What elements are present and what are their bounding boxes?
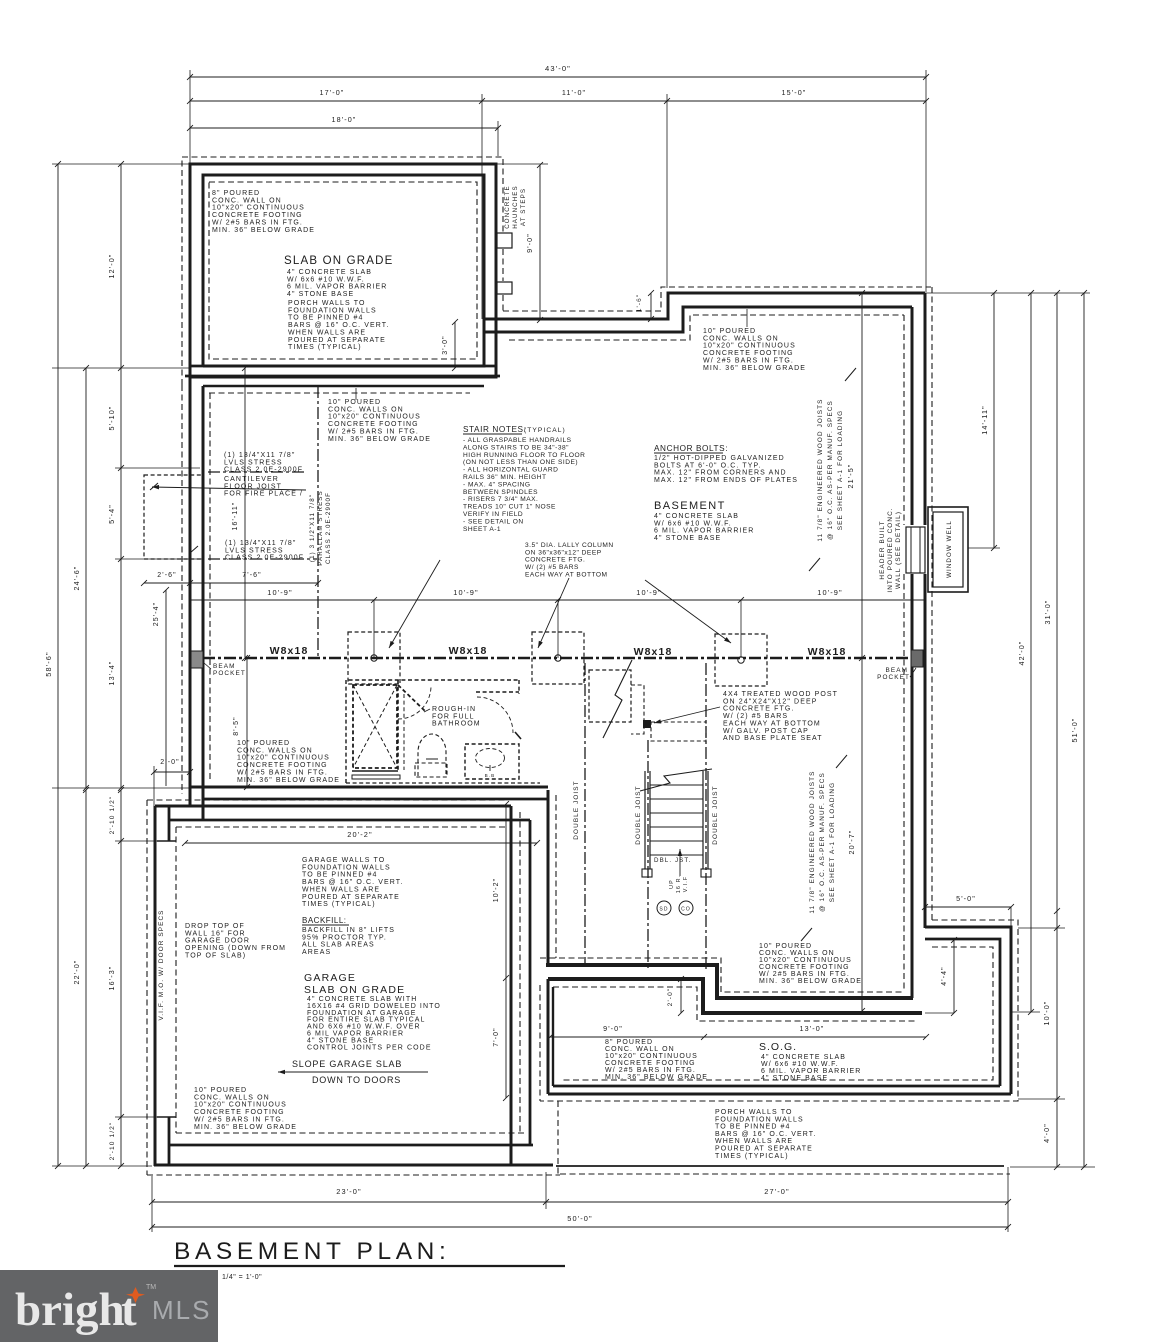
svg-text:(1) 13/4"X11 7/8": (1) 13/4"X11 7/8" xyxy=(224,452,295,459)
engineered joists note A xyxy=(809,368,856,571)
svg-text:W/ (2) #5 BARS: W/ (2) #5 BARS xyxy=(525,564,579,571)
svg-text:INTO POURED CONC.: INTO POURED CONC. xyxy=(887,507,894,592)
svg-text:BARS @ 16" O.C. VERT.: BARS @ 16" O.C. VERT. xyxy=(302,879,403,886)
svg-text:WALL (SEE DETAIL): WALL (SEE DETAIL) xyxy=(895,511,902,589)
svg-text:10'-9": 10'-9" xyxy=(636,588,661,597)
svg-text:6 MIL. VAPOR BARRIER: 6 MIL. VAPOR BARRIER xyxy=(287,284,387,291)
stair labels xyxy=(654,849,691,893)
svg-text:4" CONCRETE SLAB: 4" CONCRETE SLAB xyxy=(761,1054,846,1061)
svg-text:6 MIL. VAPOR BARRIER: 6 MIL. VAPOR BARRIER xyxy=(654,528,754,535)
svg-text:8" POURED: 8" POURED xyxy=(605,1039,653,1046)
svg-text:10" POURED: 10" POURED xyxy=(194,1087,247,1094)
svg-text:SLAB ON GRADE: SLAB ON GRADE xyxy=(304,984,405,996)
svg-text:ANCHOR BOLTS:: ANCHOR BOLTS: xyxy=(654,444,728,453)
backfill note xyxy=(302,916,395,956)
svg-text:BACKFILL IN 8" LIFTS: BACKFILL IN 8" LIFTS xyxy=(302,927,395,934)
svg-text:CONCRETE FOOTING: CONCRETE FOOTING xyxy=(759,964,850,971)
lally leader arrows xyxy=(389,560,731,648)
svg-text:BACKFILL:: BACKFILL: xyxy=(302,916,347,925)
svg-text:TO BE PINNED #4: TO BE PINNED #4 xyxy=(302,872,378,879)
parallam psl line and note xyxy=(309,386,332,658)
garage door VIF note xyxy=(158,909,165,1020)
svg-text:W/ GALV. POST CAP: W/ GALV. POST CAP xyxy=(723,728,809,735)
svg-text:BASEMENT PLAN:: BASEMENT PLAN: xyxy=(174,1238,450,1265)
garage 10in poured note xyxy=(194,1087,297,1131)
dimension 2'-0" garage offset xyxy=(151,759,193,806)
basement bottom wall stepped xyxy=(546,965,913,998)
svg-text:BASEMENT: BASEMENT xyxy=(654,500,726,512)
sog label xyxy=(759,1041,861,1082)
beam pocket right xyxy=(877,650,923,681)
svg-text:VERIFY IN FIELD: VERIFY IN FIELD xyxy=(463,511,523,518)
right extension lines xyxy=(1010,928,1095,1167)
svg-text:V.I.F. M.O. W/ DOOR SPECS: V.I.F. M.O. W/ DOOR SPECS xyxy=(158,909,165,1020)
svg-text:4" CONCRETE SLAB: 4" CONCRETE SLAB xyxy=(654,513,739,520)
concrete haunches at steps xyxy=(497,185,527,294)
dimension 42'-0" right xyxy=(1011,293,1040,1015)
svg-text:ALONG STAIRS TO BE 34"-38": ALONG STAIRS TO BE 34"-38" xyxy=(463,444,569,451)
svg-text:ROUGH-IN: ROUGH-IN xyxy=(432,706,476,713)
svg-text:1/2" HOT-DIPPED GALVANIZED: 1/2" HOT-DIPPED GALVANIZED xyxy=(654,455,785,462)
svg-text:9'-0": 9'-0" xyxy=(603,1024,623,1033)
lally column 3 xyxy=(715,634,767,686)
svg-text:MLS: MLS xyxy=(152,1295,211,1325)
svg-text:42'-0": 42'-0" xyxy=(1017,641,1026,666)
svg-text:W8x18: W8x18 xyxy=(270,645,309,657)
svg-text:2'-0": 2'-0" xyxy=(160,759,179,766)
dimension 24'-6" left xyxy=(72,365,89,791)
svg-text:13'-0": 13'-0" xyxy=(800,1024,825,1033)
svg-text:13'-4": 13'-4" xyxy=(107,661,116,686)
svg-text:(1) 13/4"X11 7/8": (1) 13/4"X11 7/8" xyxy=(225,540,296,547)
svg-text:CONCRETE FOOTING: CONCRETE FOOTING xyxy=(703,350,794,357)
text 10in poured walls NE xyxy=(703,309,806,372)
bathroom door 1 xyxy=(398,685,431,719)
sog porch footing dashes xyxy=(540,920,1018,1101)
svg-text:50'-0": 50'-0" xyxy=(567,1214,592,1223)
svg-text:AREAS: AREAS xyxy=(302,949,331,956)
west wing bottom wall xyxy=(190,787,548,799)
svg-text:W8x18: W8x18 xyxy=(449,645,488,657)
svg-text:ON 24"X24"X12" DEEP: ON 24"X24"X12" DEEP xyxy=(723,698,818,705)
dimension 23'-0" and 27'-0" bottom xyxy=(149,1187,1011,1205)
svg-text:MIN. 36" BELOW GRADE: MIN. 36" BELOW GRADE xyxy=(759,978,862,985)
understair dashed boxes xyxy=(589,660,706,741)
right top connector line xyxy=(925,290,1090,296)
svg-text:4" CONCRETE SLAB: 4" CONCRETE SLAB xyxy=(287,269,372,276)
svg-text:CONCRETE FOOTING: CONCRETE FOOTING xyxy=(194,1109,285,1116)
svg-text:PORCH WALLS TO: PORCH WALLS TO xyxy=(288,300,366,307)
svg-text:SLAB ON GRADE: SLAB ON GRADE xyxy=(284,255,394,267)
svg-text:B.B: B.B xyxy=(485,773,496,778)
svg-text:OPENING (DOWN FROM: OPENING (DOWN FROM xyxy=(185,945,286,952)
svg-text:TO BE PINNED #4: TO BE PINNED #4 xyxy=(288,315,364,322)
svg-text:ON 36"x36"x12" DEEP: ON 36"x36"x12" DEEP xyxy=(525,549,602,556)
svg-text:CONC. WALLS ON: CONC. WALLS ON xyxy=(328,406,404,413)
stair shaft left wall xyxy=(548,790,556,963)
svg-text:V.I.F: V.I.F xyxy=(683,876,689,892)
svg-text:@ 16" O.C. AS-PER MANUF. SPECS: @ 16" O.C. AS-PER MANUF. SPECS xyxy=(819,772,826,912)
bright MLS logo xyxy=(0,1270,218,1342)
svg-text:3'-0": 3'-0" xyxy=(442,335,449,354)
basement bottom footing dash xyxy=(540,958,905,992)
svg-text:CONC. WALL ON: CONC. WALL ON xyxy=(605,1046,675,1053)
svg-text:CONCRETE FTG.: CONCRETE FTG. xyxy=(723,706,794,713)
steel beam W8x18 line xyxy=(203,657,912,660)
svg-text:58'-6": 58'-6" xyxy=(44,651,53,676)
svg-text:W/ 2#5 BARS IN FTG.: W/ 2#5 BARS IN FTG. xyxy=(759,971,850,978)
east wall inner xyxy=(911,307,914,998)
west wing left wall xyxy=(182,377,210,820)
dimension 10'-9" row xyxy=(190,588,925,658)
svg-text:DBL. JST.: DBL. JST. xyxy=(654,857,691,864)
svg-text:14'-11": 14'-11" xyxy=(980,405,989,434)
svg-text:1/4" = 1'-0": 1/4" = 1'-0" xyxy=(222,1274,262,1281)
svg-text:- ALL GRASPABLE HANDRAILS: - ALL GRASPABLE HANDRAILS xyxy=(463,437,572,444)
svg-text:(ON NOT LESS THAN ONE SIDE): (ON NOT LESS THAN ONE SIDE) xyxy=(463,459,578,466)
svg-text:10"x20" CONTINUOUS: 10"x20" CONTINUOUS xyxy=(759,957,852,964)
garage walls pinned note xyxy=(302,857,403,908)
svg-text:FOR FIRE PLACE /: FOR FIRE PLACE / xyxy=(224,491,303,498)
svg-text:95% PROCTOR TYP.: 95% PROCTOR TYP. xyxy=(302,934,387,941)
rough-in text xyxy=(424,706,481,728)
svg-text:11 7/8" ENGINEERED WOOD JOISTS: 11 7/8" ENGINEERED WOOD JOISTS xyxy=(817,398,824,541)
cantilever joist dashdot lines xyxy=(208,472,317,559)
sog porch left wall xyxy=(540,979,553,1101)
svg-text:20'-2": 20'-2" xyxy=(347,830,372,839)
svg-text:TIMES (TYPICAL): TIMES (TYPICAL) xyxy=(288,344,362,351)
svg-text:FOR FULL: FOR FULL xyxy=(432,713,475,720)
dimension 10'-2" and 7'-0" garage xyxy=(493,801,509,1101)
east wall footing dashes xyxy=(904,287,932,992)
svg-text:STAIR NOTES:: STAIR NOTES: xyxy=(463,425,526,434)
svg-text:10"x20" CONTINUOUS: 10"x20" CONTINUOUS xyxy=(194,1102,287,1109)
svg-text:10" POURED: 10" POURED xyxy=(703,328,756,335)
svg-text:BARS @ 16" O.C. VERT.: BARS @ 16" O.C. VERT. xyxy=(288,322,389,329)
svg-text:@ 16" O.C. AS-PER MANUF. SPECS: @ 16" O.C. AS-PER MANUF. SPECS xyxy=(827,400,834,540)
svg-text:W8x18: W8x18 xyxy=(808,646,847,658)
svg-text:22'-0": 22'-0" xyxy=(72,960,81,985)
beam pocket left xyxy=(191,651,246,677)
svg-text:WHEN WALLS ARE: WHEN WALLS ARE xyxy=(715,1138,793,1145)
svg-text:2'-10 1/2": 2'-10 1/2" xyxy=(109,796,116,835)
window in east wall xyxy=(903,525,927,574)
svg-text:8'-5": 8'-5" xyxy=(233,716,240,735)
svg-text:16'-11": 16'-11" xyxy=(232,502,239,531)
svg-text:SLOPE GARAGE SLAB: SLOPE GARAGE SLAB xyxy=(292,1059,402,1069)
svg-text:W/ 2#5 BARS IN FTG.: W/ 2#5 BARS IN FTG. xyxy=(212,219,303,226)
left column dims 12-0 / 5-10 / 5-4 / 13-4 xyxy=(107,161,124,791)
slope garage slab note xyxy=(278,1059,428,1085)
svg-text:CONC. WALLS ON: CONC. WALLS ON xyxy=(237,747,313,754)
svg-text:W/ 2#5 BARS IN FTG.: W/ 2#5 BARS IN FTG. xyxy=(328,428,419,435)
dimension 22'-0" left xyxy=(72,787,89,1169)
porch south wall / west wing top xyxy=(185,366,500,393)
svg-text:4" STONE BASE: 4" STONE BASE xyxy=(654,535,721,542)
svg-text:5'-0": 5'-0" xyxy=(956,894,976,903)
svg-text:WHEN WALLS ARE: WHEN WALLS ARE xyxy=(288,329,366,336)
svg-text:TREADS 10" CUT 1" NOSE: TREADS 10" CUT 1" NOSE xyxy=(463,504,556,511)
svg-text:6 MIL. VAPOR BARRIER: 6 MIL. VAPOR BARRIER xyxy=(761,1068,861,1075)
stair stringers and treads xyxy=(640,769,712,877)
dimension 2'-0" sog step xyxy=(667,976,684,1016)
dimension 5'-0" xyxy=(922,894,1014,927)
svg-text:27'-0": 27'-0" xyxy=(764,1187,789,1196)
svg-text:10"x20" CONTINUOUS: 10"x20" CONTINUOUS xyxy=(237,755,330,762)
svg-text:W/ 6x6 #10 W.W.F.: W/ 6x6 #10 W.W.F. xyxy=(654,520,732,527)
svg-text:WHEN WALLS ARE: WHEN WALLS ARE xyxy=(302,886,380,893)
svg-text:POURED AT SEPARATE: POURED AT SEPARATE xyxy=(302,894,400,901)
svg-text:3.5" DIA. LALLY COLUMN: 3.5" DIA. LALLY COLUMN xyxy=(525,542,614,549)
svg-text:ALL SLAB AREAS: ALL SLAB AREAS xyxy=(302,942,375,949)
svg-text:PORCH WALLS TO: PORCH WALLS TO xyxy=(715,1109,793,1116)
svg-text:MIN. 36" BELOW GRADE: MIN. 36" BELOW GRADE xyxy=(703,365,806,372)
dimension 1'-6" north step xyxy=(636,290,654,322)
dimension row 17/11/15 top xyxy=(187,88,929,104)
north wall inner with step xyxy=(484,307,912,332)
garage right wall xyxy=(511,806,530,1165)
svg-text:CONC. WALLS ON: CONC. WALLS ON xyxy=(194,1094,270,1101)
porch text 8 inch poured wall note xyxy=(212,190,315,234)
dimension 58'-6" left xyxy=(44,161,61,1169)
svg-text:5'-10": 5'-10" xyxy=(107,406,116,431)
svg-text:MIN. 36" BELOW GRADE: MIN. 36" BELOW GRADE xyxy=(328,436,431,443)
dimension 21'-5" and 20'-7" xyxy=(846,290,865,1014)
dimension 3'-0" porch xyxy=(442,319,458,371)
svg-text:8" POURED: 8" POURED xyxy=(212,190,260,197)
basement label xyxy=(654,500,754,542)
svg-text:POCKET: POCKET xyxy=(877,674,910,681)
svg-text:10"x20" CONTINUOUS: 10"x20" CONTINUOUS xyxy=(703,343,796,350)
svg-text:BEAM: BEAM xyxy=(885,667,908,674)
svg-text:DOWN TO DOORS: DOWN TO DOORS xyxy=(312,1075,401,1085)
svg-text:7'-6": 7'-6" xyxy=(242,572,261,579)
svg-text:W/ 6x6 #10 W.W.F.: W/ 6x6 #10 W.W.F. xyxy=(287,276,365,283)
dimension 9'-0" porch right xyxy=(497,162,548,323)
bathroom outline dashed xyxy=(346,680,540,783)
svg-text:LVLS STRESS: LVLS STRESS xyxy=(224,459,283,466)
svg-text:MIN. 36" BELOW GRADE: MIN. 36" BELOW GRADE xyxy=(237,777,340,784)
text 10in poured walls west wing xyxy=(328,388,431,443)
toilet rough-in xyxy=(415,734,447,777)
svg-text:GARAGE WALLS TO: GARAGE WALLS TO xyxy=(302,857,385,864)
svg-text:GARAGE: GARAGE xyxy=(304,972,356,984)
svg-text:TIMES (TYPICAL): TIMES (TYPICAL) xyxy=(715,1153,789,1160)
dimension 43'-0" top xyxy=(187,64,929,80)
svg-text:10'-2": 10'-2" xyxy=(493,878,500,902)
garage left wall xyxy=(155,806,176,1166)
svg-text:W/ 2#5 BARS IN FTG.: W/ 2#5 BARS IN FTG. xyxy=(237,769,328,776)
svg-text:HIGH RUNNING FLOOR TO FLOOR: HIGH RUNNING FLOOR TO FLOOR xyxy=(463,452,585,459)
svg-text:WINDOW WELL: WINDOW WELL xyxy=(946,520,953,578)
shower rough-in xyxy=(352,685,400,779)
svg-text:18'-0": 18'-0" xyxy=(332,115,357,124)
svg-text:10" POURED: 10" POURED xyxy=(237,740,290,747)
sog 8in wall note xyxy=(605,1039,708,1081)
svg-text:CONC. WALLS ON: CONC. WALLS ON xyxy=(759,950,835,957)
porch walls pinned note xyxy=(288,300,389,351)
lally column 2 xyxy=(532,632,584,684)
svg-text:DOUBLE JOIST: DOUBLE JOIST xyxy=(712,785,719,844)
svg-text:CONCRETE FOOTING: CONCRETE FOOTING xyxy=(328,421,419,428)
svg-text:RAILS 36" MIN. HEIGHT: RAILS 36" MIN. HEIGHT xyxy=(463,474,547,481)
svg-text:2'-0": 2'-0" xyxy=(667,988,674,1007)
svg-text:SHEET A-1: SHEET A-1 xyxy=(463,526,501,533)
svg-text:4X4 TREATED WOOD POST: 4X4 TREATED WOOD POST xyxy=(723,691,838,698)
svg-text:- ALL HORIZONTAL GUARD: - ALL HORIZONTAL GUARD xyxy=(463,467,558,474)
svg-text:PARALLAM STRESS: PARALLAM STRESS xyxy=(317,490,324,566)
lvl note upper xyxy=(224,452,303,474)
svg-text:UP: UP xyxy=(669,879,675,889)
smoke and co detectors xyxy=(657,901,693,915)
svg-text:MAX. 12" FROM ENDS OF PLATES: MAX. 12" FROM ENDS OF PLATES xyxy=(654,477,798,484)
lally column 1 xyxy=(348,632,400,684)
svg-text:TO BE PINNED #4: TO BE PINNED #4 xyxy=(715,1124,791,1131)
sog porch top wall stepped xyxy=(548,979,922,1013)
svg-text:11'-0": 11'-0" xyxy=(562,88,586,97)
svg-text:2'-10 1/2": 2'-10 1/2" xyxy=(109,1122,116,1161)
svg-text:MIN. 36" BELOW GRADE: MIN. 36" BELOW GRADE xyxy=(212,227,315,234)
svg-text:S.O.G.: S.O.G. xyxy=(759,1041,797,1053)
svg-text:CONC. WALLS ON: CONC. WALLS ON xyxy=(703,335,779,342)
sog porch bottom wall xyxy=(548,1086,1011,1094)
svg-text:BETWEEN SPINDLES: BETWEEN SPINDLES xyxy=(463,489,538,496)
svg-text:16'-3": 16'-3" xyxy=(107,966,116,991)
svg-text:SEE SHEET A-1 FOR LOADING: SEE SHEET A-1 FOR LOADING xyxy=(829,782,836,902)
dimension 25'-4" xyxy=(153,587,169,786)
dimension 50'-0" bottom xyxy=(149,1214,1011,1230)
svg-text:WALL 16" FOR: WALL 16" FOR xyxy=(185,930,246,937)
garage footing dashes xyxy=(147,800,560,1175)
dimension 4'-4" xyxy=(925,937,957,1016)
dimension 2'-6" and 7'-6" xyxy=(141,572,321,586)
dimension 51'-0" right xyxy=(1070,293,1087,1170)
svg-text:W8x18: W8x18 xyxy=(634,646,673,658)
cantilever note xyxy=(152,476,306,498)
svg-text:- SEE DETAIL ON: - SEE DETAIL ON xyxy=(463,518,524,525)
svg-text:POCKET: POCKET xyxy=(213,670,246,677)
svg-text:- MAX. 4" SPACING: - MAX. 4" SPACING xyxy=(463,481,531,488)
bottom porch strip xyxy=(556,1101,1010,1174)
svg-text:23'-0": 23'-0" xyxy=(336,1187,361,1196)
dimension 20'-2" xyxy=(182,830,540,846)
left extension lines xyxy=(52,164,203,1166)
svg-text:43'-0": 43'-0" xyxy=(545,64,571,73)
porch wall inner xyxy=(203,175,484,366)
svg-text:BOLTS AT 6'-0" O.C. TYP.: BOLTS AT 6'-0" O.C. TYP. xyxy=(654,462,761,469)
svg-text:SEE SHEET A-1 FOR LOADING: SEE SHEET A-1 FOR LOADING xyxy=(837,410,844,530)
svg-text:10'-0": 10'-0" xyxy=(1042,1001,1051,1026)
svg-text:CLASS 2.0E-2900F: CLASS 2.0E-2900F xyxy=(325,492,332,564)
svg-text:AND BASE PLATE SEAT: AND BASE PLATE SEAT xyxy=(723,735,823,742)
double joist dashdot lines xyxy=(573,663,719,971)
east wall outer xyxy=(924,293,927,928)
dimension 18'-0" top xyxy=(187,115,501,131)
svg-text:W/ 2#5 BARS IN FTG.: W/ 2#5 BARS IN FTG. xyxy=(605,1067,696,1074)
svg-text:5'-4": 5'-4" xyxy=(107,504,116,524)
svg-text:21'-5": 21'-5" xyxy=(846,464,855,489)
dimension 8'-5" and wall note xyxy=(233,655,340,790)
svg-text:10" POURED: 10" POURED xyxy=(328,399,381,406)
sink rough-in xyxy=(465,744,519,779)
svg-text:- RISERS 7 3/4" MAX.: - RISERS 7 3/4" MAX. xyxy=(463,496,538,503)
svg-text:W/ 2#5 BARS IN FTG.: W/ 2#5 BARS IN FTG. xyxy=(703,357,794,364)
svg-text:MIN. 36" BELOW GRADE: MIN. 36" BELOW GRADE xyxy=(605,1074,708,1081)
porch footing dashed outline xyxy=(182,157,503,385)
W8x18 labels xyxy=(270,645,847,658)
svg-text:9'-0": 9'-0" xyxy=(525,233,534,253)
sog porch right section walls xyxy=(925,927,1011,1094)
dimension 16'-11" xyxy=(232,365,248,661)
svg-text:(1) 3 1/2"X11 7/8": (1) 3 1/2"X11 7/8" xyxy=(309,494,316,562)
post note text xyxy=(723,691,838,742)
svg-text:CONCRETE: CONCRETE xyxy=(504,185,511,229)
dimension 9'-0" and 13'-0" sog xyxy=(547,1024,929,1040)
svg-text:4'-0": 4'-0" xyxy=(1042,1123,1051,1143)
header built into wall note xyxy=(879,507,902,592)
svg-text:HEADER BUILT: HEADER BUILT xyxy=(879,520,886,579)
svg-text:10'-9": 10'-9" xyxy=(817,588,842,597)
svg-text:HAUNCHES: HAUNCHES xyxy=(512,185,519,229)
svg-text:BEAM: BEAM xyxy=(213,663,236,670)
svg-text:(TYPICAL): (TYPICAL) xyxy=(524,427,566,434)
svg-text:MIN. 36" BELOW GRADE: MIN. 36" BELOW GRADE xyxy=(194,1124,297,1131)
svg-text:12'-0": 12'-0" xyxy=(107,254,116,279)
window well xyxy=(928,507,968,592)
svg-text:4" STONE BASE: 4" STONE BASE xyxy=(287,291,354,298)
svg-text:EACH WAY AT BOTTOM: EACH WAY AT BOTTOM xyxy=(525,571,608,578)
porch wall outer xyxy=(190,164,496,377)
svg-text:LVLS STRESS: LVLS STRESS xyxy=(225,547,284,554)
engineered joists note B xyxy=(801,755,847,941)
garage bottom wall xyxy=(154,1145,553,1165)
svg-text:2'-6": 2'-6" xyxy=(157,572,176,579)
svg-text:4" STONE BASE: 4" STONE BASE xyxy=(761,1075,828,1082)
north wall outer with step xyxy=(484,293,925,319)
svg-text:W/ 6x6 #10 W.W.F.: W/ 6x6 #10 W.W.F. xyxy=(761,1061,839,1068)
svg-text:CONC. WALL ON: CONC. WALL ON xyxy=(212,197,282,204)
svg-text:EACH WAY AT BOTTOM: EACH WAY AT BOTTOM xyxy=(723,720,821,727)
title basement plan xyxy=(174,1238,565,1281)
svg-text:10" POURED: 10" POURED xyxy=(759,943,812,950)
svg-text:16 R.: 16 R. xyxy=(676,875,682,893)
dimension 31'-0" 10'-0" 4'-0" right xyxy=(1042,293,1060,1170)
drop top of wall note xyxy=(185,923,286,959)
svg-text:7'-0": 7'-0" xyxy=(493,1027,500,1046)
bathroom door 2 xyxy=(476,692,521,739)
svg-text:TOP OF SLAB): TOP OF SLAB) xyxy=(185,952,246,959)
stair notes xyxy=(463,425,585,533)
svg-text:FOUNDATION WALLS: FOUNDATION WALLS xyxy=(288,307,377,314)
svg-text:25'-4": 25'-4" xyxy=(153,602,160,626)
garage slab title xyxy=(304,972,441,1051)
porch title SLAB ON GRADE xyxy=(284,255,394,298)
svg-text:DOUBLE JOIST: DOUBLE JOIST xyxy=(573,780,580,839)
svg-text:CO: CO xyxy=(681,907,691,913)
lally column note xyxy=(525,542,614,578)
svg-text:1'-6": 1'-6" xyxy=(636,294,643,312)
svg-text:FOUNDATION WALLS: FOUNDATION WALLS xyxy=(715,1116,804,1123)
svg-text:24'-6": 24'-6" xyxy=(72,566,81,591)
svg-text:CONCRETE FTG.: CONCRETE FTG. xyxy=(525,557,585,564)
svg-text:MAX. 12" FROM CORNERS AND: MAX. 12" FROM CORNERS AND xyxy=(654,470,787,477)
svg-text:W/ (2) #5 BARS: W/ (2) #5 BARS xyxy=(723,713,788,720)
svg-text:DROP TOP OF: DROP TOP OF xyxy=(185,923,245,930)
svg-text:POURED AT SEPARATE: POURED AT SEPARATE xyxy=(288,337,386,344)
north wall footing dashes xyxy=(503,287,931,340)
10in poured walls note center xyxy=(759,943,862,985)
svg-text:CONCRETE FOOTING: CONCRETE FOOTING xyxy=(212,212,303,219)
